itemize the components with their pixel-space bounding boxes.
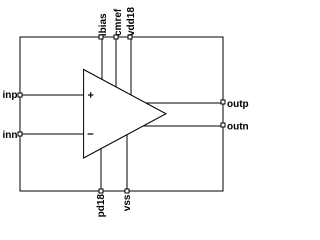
svg-text:outp: outp: [227, 99, 249, 110]
svg-text:outn: outn: [227, 122, 249, 133]
svg-text:vss: vss: [122, 194, 133, 211]
pin inn: [18, 132, 22, 136]
svg-text:inp: inp: [3, 90, 18, 101]
svg-text:ibias: ibias: [98, 13, 109, 36]
pin cmref: [114, 35, 118, 39]
wire ibias (top pin to op-amp edge): [101, 37, 103, 80]
minus input polarity mark: [88, 133, 94, 135]
wire vdd18: [130, 37, 132, 95]
svg-text:vdd18: vdd18: [126, 7, 137, 36]
pin inp: [18, 93, 22, 97]
wire inp: [20, 94, 84, 96]
pin outn: [221, 123, 225, 127]
wire pd18 (bottom pin to op-amp edge): [100, 149, 102, 191]
op-amp U1: [84, 70, 166, 159]
pin pd18: [99, 189, 103, 193]
pin vss: [125, 189, 129, 193]
wire outn: [143, 125, 223, 127]
svg-text:cmref: cmref: [113, 8, 124, 36]
svg-text:pd18: pd18: [96, 194, 107, 218]
svg-text:inn: inn: [3, 130, 18, 141]
wire outp: [146, 102, 223, 104]
pin vdd18: [128, 35, 132, 39]
pin outp: [221, 100, 225, 104]
wire cmref: [115, 37, 117, 87]
wire vss: [126, 135, 128, 191]
symbol boundary box: [20, 37, 223, 191]
wire inn: [20, 133, 84, 135]
plus input polarity mark: [88, 92, 93, 97]
pin ibias: [99, 35, 103, 39]
